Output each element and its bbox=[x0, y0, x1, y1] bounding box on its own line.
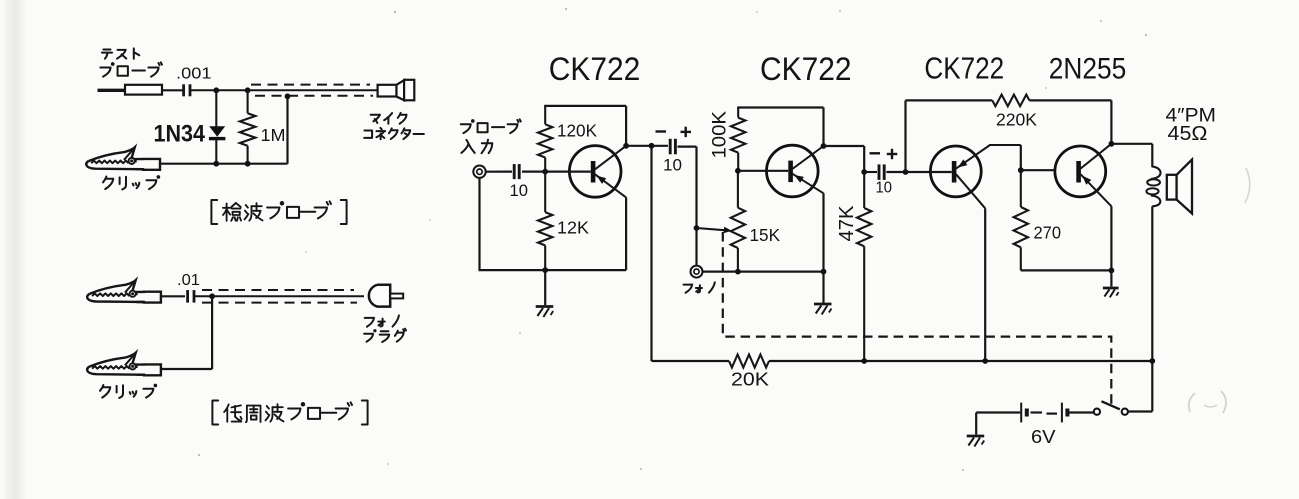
svg-text:CK722: CK722 bbox=[549, 51, 641, 87]
svg-text:CK722: CK722 bbox=[924, 51, 1004, 86]
feedback wire down to 20K rail bbox=[650, 146, 652, 361]
node diode bottom bbox=[213, 161, 219, 167]
svg-text:1N34: 1N34 bbox=[154, 121, 206, 148]
node rail/Q3 collector bbox=[982, 358, 988, 364]
phono plug bbox=[369, 285, 390, 307]
wire center conductor to phono plug bbox=[195, 295, 365, 297]
svg-text:CK722: CK722 bbox=[760, 51, 852, 87]
wire C1 to Q1 base bbox=[522, 171, 569, 173]
transistor Q3 bbox=[930, 146, 981, 197]
polarity marks C2 bbox=[656, 130, 667, 132]
top rail stage2 bbox=[737, 106, 823, 108]
battery 6V bbox=[1020, 403, 1022, 423]
alligator clip 3 bbox=[87, 353, 161, 376]
node Q1 base bbox=[542, 169, 548, 175]
node feedback takeoff bbox=[649, 143, 655, 149]
svg-text:6V: 6V bbox=[1031, 426, 1056, 447]
svg-text:45Ω: 45Ω bbox=[1168, 122, 1208, 145]
svg-text:10: 10 bbox=[663, 157, 682, 175]
label フォノ (plug) bbox=[365, 318, 374, 327]
test probe tip bbox=[98, 89, 126, 92]
svg-text:.01: .01 bbox=[177, 272, 200, 289]
wire center conductor to mic connector bbox=[190, 89, 378, 91]
label マイク bbox=[371, 115, 380, 123]
label フォノ (jack) bbox=[684, 285, 693, 293]
dashed linkage from volume to switch bbox=[723, 232, 1112, 405]
node Q4 collector bbox=[1109, 141, 1115, 147]
resistor 1M bbox=[247, 90, 249, 113]
svg-text:2N255: 2N255 bbox=[1049, 53, 1127, 86]
svg-text:270: 270 bbox=[1034, 223, 1062, 243]
bracket label 低周波プローブ bbox=[212, 401, 218, 425]
phono jack bbox=[691, 266, 703, 278]
resistor 220K bbox=[992, 95, 1029, 107]
node 1M bottom bbox=[245, 161, 251, 167]
220K rail bbox=[906, 99, 993, 101]
node shield junction bbox=[285, 93, 291, 99]
faint smudge bottom right bbox=[1189, 393, 1195, 412]
top rail stage1 bbox=[544, 105, 626, 107]
label プローブ入力 bbox=[461, 119, 475, 133]
label クリップ (lower) bbox=[100, 385, 110, 398]
label プラグ bbox=[364, 329, 376, 342]
node Q4 base bbox=[1018, 167, 1024, 173]
polarity marks C3 bbox=[870, 152, 881, 154]
svg-text:10: 10 bbox=[510, 182, 529, 200]
transistor Q1 bbox=[569, 146, 621, 198]
resistor 120K bbox=[544, 106, 546, 124]
svg-text:100K: 100K bbox=[709, 111, 731, 159]
ground rail stage2 bbox=[702, 271, 824, 273]
node 47K top bbox=[861, 169, 867, 175]
node wiper junction bbox=[694, 225, 700, 231]
svg-text:15K: 15K bbox=[750, 225, 781, 245]
switch bbox=[1094, 409, 1100, 415]
negative supply rail with 20K bbox=[652, 360, 730, 362]
battery ground bbox=[975, 413, 977, 435]
resistor 47K bbox=[857, 208, 871, 246]
alligator clip 2 bbox=[87, 280, 161, 303]
resistor 12K bbox=[544, 172, 546, 213]
svg-text:220K: 220K bbox=[996, 110, 1037, 130]
transistor Q4 bbox=[1055, 146, 1106, 197]
wire C2 to volume wiper bbox=[678, 146, 697, 148]
node 15K bottom bbox=[735, 269, 741, 275]
node Q1 collector bbox=[623, 143, 629, 149]
node Q2 emitter/ground bbox=[821, 269, 827, 275]
faint smudge right of speaker bbox=[1245, 168, 1250, 203]
capacitor .001 bbox=[182, 84, 185, 96]
ground stage1 bbox=[544, 270, 546, 305]
node Q2 collector bbox=[821, 143, 827, 149]
capacitor .01 bbox=[186, 290, 189, 303]
wire battery to switch bbox=[1067, 411, 1093, 413]
wire Q1 collector to C2 bbox=[626, 145, 668, 147]
svg-text:120K: 120K bbox=[557, 120, 597, 140]
wire clip3 up to junction bbox=[211, 296, 213, 369]
node rail/47K bbox=[861, 358, 867, 364]
node Q3 base/220K bbox=[903, 169, 909, 175]
capacitor C3 10uF bbox=[878, 164, 881, 180]
wire clip to bottom rail bbox=[160, 163, 288, 165]
wire C3 to Q3 base bbox=[864, 171, 877, 173]
cable shield dashes (upper diagram) bbox=[251, 84, 370, 86]
label テスト bbox=[102, 50, 112, 59]
node Q4 emitter/ground bbox=[1109, 268, 1115, 274]
resistor 270 bbox=[1020, 170, 1022, 207]
node rail/speaker-switch bbox=[1149, 358, 1155, 364]
svg-text:20K: 20K bbox=[731, 370, 769, 390]
svg-text:47K: 47K bbox=[836, 205, 858, 242]
bottom rail stage1 bbox=[478, 178, 480, 270]
input jack bbox=[473, 166, 485, 178]
speaker 4PM bbox=[1167, 175, 1177, 200]
emitter rail Q4 bbox=[1021, 269, 1112, 271]
bracket label 検波プローブ bbox=[211, 200, 217, 224]
node 12K/ground bbox=[542, 267, 548, 273]
node diode top bbox=[213, 87, 219, 93]
shield return wire bbox=[286, 96, 288, 163]
label コネクター bbox=[364, 130, 372, 137]
svg-text:12K: 12K bbox=[557, 218, 589, 238]
svg-text:1M: 1M bbox=[261, 125, 286, 145]
speaker voice coil bbox=[1151, 167, 1161, 179]
label クリップ bbox=[103, 177, 113, 190]
page left edge shading bbox=[4, 0, 28, 499]
wire jack to C1 bbox=[486, 171, 512, 173]
resistor 15K bbox=[737, 171, 739, 208]
mic connector bbox=[378, 85, 397, 97]
node 1M top bbox=[245, 87, 251, 93]
capacitor C1 10uF bbox=[513, 164, 516, 179]
resistor 100K bbox=[737, 108, 739, 118]
wire Q2 collector to 47K/C3 bbox=[824, 145, 865, 147]
scan speckles (decorative) bbox=[394, 11, 396, 13]
wire clip2 to capacitor bbox=[161, 295, 185, 297]
transistor Q2 bbox=[767, 145, 819, 197]
svg-text:10: 10 bbox=[876, 180, 893, 197]
ground Q4 bbox=[1110, 270, 1112, 286]
wire probe to capacitor bbox=[162, 89, 183, 91]
node cap/clip junction bbox=[209, 293, 215, 299]
alligator clip (upper diagram) bbox=[86, 147, 160, 170]
cable shield dashes (lower diagram) bbox=[202, 289, 354, 291]
svg-text:.001: .001 bbox=[176, 66, 212, 83]
ground stage2 bbox=[822, 272, 824, 303]
capacitor C2 10uF bbox=[669, 139, 672, 155]
wire Q4 collector to speaker bbox=[1111, 143, 1152, 145]
wiper arrow into 15K bbox=[697, 228, 728, 230]
diode 1N34 bbox=[215, 90, 217, 126]
feedback riser to 220K rail bbox=[904, 100, 906, 172]
label プローブ bbox=[100, 62, 114, 76]
wire ground to battery bbox=[976, 411, 1020, 413]
